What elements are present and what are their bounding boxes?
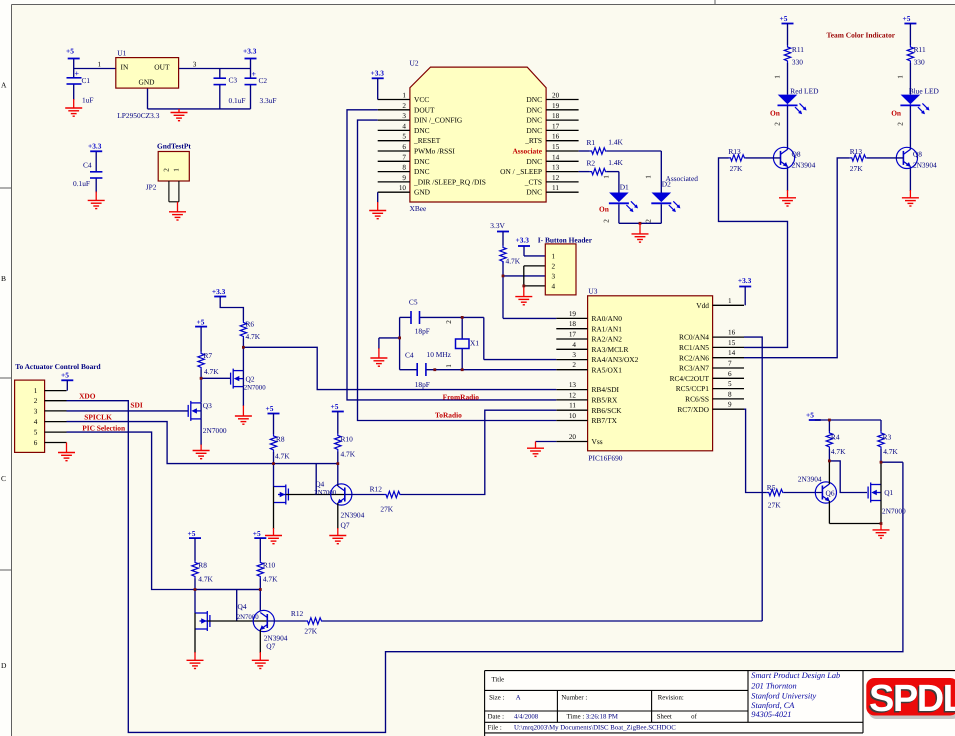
svg-text:A: A xyxy=(516,695,521,702)
svg-text:201 Thornton: 201 Thornton xyxy=(751,681,796,690)
svg-text:U1: U1 xyxy=(117,48,126,57)
svg-text:SDI: SDI xyxy=(130,401,142,410)
svg-text:of: of xyxy=(691,714,697,721)
svg-text:4: 4 xyxy=(402,122,406,130)
svg-text:Time :: Time : xyxy=(567,714,585,721)
svg-text:DNC: DNC xyxy=(526,95,542,104)
svg-text:27K: 27K xyxy=(730,164,743,173)
svg-text:2N7000: 2N7000 xyxy=(244,384,267,391)
svg-text:GndTestPt: GndTestPt xyxy=(157,142,191,151)
svg-text:Associate: Associate xyxy=(512,147,542,156)
svg-text:Q1: Q1 xyxy=(884,488,893,497)
svg-text:RA4/AN3/OX2: RA4/AN3/OX2 xyxy=(592,355,639,364)
svg-text:18: 18 xyxy=(569,320,577,328)
svg-text:On: On xyxy=(770,108,780,117)
svg-text:RA0/AN0: RA0/AN0 xyxy=(592,314,623,323)
svg-text:C1: C1 xyxy=(82,76,91,85)
svg-text:DNC: DNC xyxy=(526,116,542,125)
svg-text:4.7K: 4.7K xyxy=(831,447,846,456)
svg-text:2: 2 xyxy=(572,361,576,369)
svg-text:94305-4021: 94305-4021 xyxy=(751,710,791,719)
svg-text:GND: GND xyxy=(138,78,155,87)
svg-text:Associated: Associated xyxy=(666,174,699,183)
svg-text:11: 11 xyxy=(552,184,559,192)
svg-text:2N7000: 2N7000 xyxy=(237,614,260,621)
svg-text:PIC Selection: PIC Selection xyxy=(82,423,125,432)
svg-text:18pF: 18pF xyxy=(415,380,430,389)
svg-text:2: 2 xyxy=(645,219,653,223)
svg-text:6: 6 xyxy=(402,143,406,151)
svg-text:R10: R10 xyxy=(263,561,276,570)
svg-text:27K: 27K xyxy=(768,501,781,510)
svg-text:Q4: Q4 xyxy=(315,479,324,488)
svg-text:2N7000: 2N7000 xyxy=(882,507,906,516)
svg-text:RA5/OX1: RA5/OX1 xyxy=(592,365,623,374)
svg-text:RB7/TX: RB7/TX xyxy=(592,416,618,425)
svg-text:8: 8 xyxy=(728,390,732,398)
svg-text:2N3904: 2N3904 xyxy=(913,160,937,169)
svg-text:GND: GND xyxy=(414,188,431,197)
svg-text:1: 1 xyxy=(897,75,905,79)
svg-text:+5: +5 xyxy=(903,14,911,23)
svg-text:0.1uF: 0.1uF xyxy=(229,96,246,105)
svg-text:To Actuator Control Board: To Actuator Control Board xyxy=(15,362,101,371)
svg-text:10: 10 xyxy=(569,412,577,420)
svg-text:R1: R1 xyxy=(587,138,596,147)
svg-text:R13: R13 xyxy=(850,147,863,156)
svg-text:R3: R3 xyxy=(883,432,892,441)
svg-text:1: 1 xyxy=(774,75,782,79)
svg-text:10 MHz: 10 MHz xyxy=(427,350,452,359)
svg-text:RA3/MCLR: RA3/MCLR xyxy=(592,345,629,354)
svg-text:+5: +5 xyxy=(253,529,261,538)
svg-text:+3.3: +3.3 xyxy=(243,46,257,55)
svg-text:Q8: Q8 xyxy=(913,149,922,158)
svg-text:_RTS: _RTS xyxy=(524,136,542,145)
svg-text:I- Button Header: I- Button Header xyxy=(538,235,593,244)
svg-text:_DIR /SLEEP_RQ /DIS: _DIR /SLEEP_RQ /DIS xyxy=(413,177,486,186)
svg-text:RC4/C2OUT: RC4/C2OUT xyxy=(670,374,710,383)
svg-text:VCC: VCC xyxy=(414,95,429,104)
svg-text:15: 15 xyxy=(552,143,560,151)
svg-text:4.7K: 4.7K xyxy=(198,575,213,584)
svg-text:R6: R6 xyxy=(246,319,255,328)
svg-text:19: 19 xyxy=(569,310,577,318)
svg-text:Vss: Vss xyxy=(592,437,603,446)
svg-text:C2: C2 xyxy=(259,76,268,85)
svg-text:1: 1 xyxy=(445,364,453,368)
svg-text:PWMo /RSSI: PWMo /RSSI xyxy=(414,147,455,156)
svg-text:XBee: XBee xyxy=(410,204,428,213)
svg-text:2: 2 xyxy=(402,102,406,110)
svg-text:DNC: DNC xyxy=(526,157,542,166)
svg-text:12: 12 xyxy=(552,174,560,182)
svg-text:10: 10 xyxy=(399,184,407,192)
svg-text:17: 17 xyxy=(552,122,560,130)
svg-text:2: 2 xyxy=(552,263,556,271)
svg-text:C: C xyxy=(1,474,6,483)
svg-text:+3.3: +3.3 xyxy=(88,142,102,151)
svg-text:R12: R12 xyxy=(291,609,304,618)
svg-text:1: 1 xyxy=(552,253,556,261)
svg-text:Q8: Q8 xyxy=(792,149,801,158)
svg-text:RC1/AN5: RC1/AN5 xyxy=(679,343,709,352)
svg-text:RB4/SDI: RB4/SDI xyxy=(592,385,620,394)
svg-text:19: 19 xyxy=(552,102,560,110)
svg-text:+3.3: +3.3 xyxy=(371,68,385,77)
svg-text:17: 17 xyxy=(569,331,577,339)
svg-text:File :: File : xyxy=(488,725,502,732)
svg-text:+3.3: +3.3 xyxy=(516,235,530,244)
svg-text:330: 330 xyxy=(914,57,925,66)
svg-text:ToRadio: ToRadio xyxy=(435,410,462,419)
svg-text:Stanford University: Stanford University xyxy=(751,691,816,700)
svg-text:2N3904: 2N3904 xyxy=(798,475,822,484)
svg-text:2N3904: 2N3904 xyxy=(792,160,816,169)
svg-text:4/4/2008: 4/4/2008 xyxy=(514,714,539,721)
svg-text:330: 330 xyxy=(792,57,803,66)
svg-text:14: 14 xyxy=(552,153,560,161)
svg-text:RA1/AN1: RA1/AN1 xyxy=(592,324,623,333)
svg-text:1.4K: 1.4K xyxy=(608,158,623,167)
svg-text:27K: 27K xyxy=(850,164,863,173)
svg-text:R8: R8 xyxy=(198,561,207,570)
svg-text:+5: +5 xyxy=(331,402,339,411)
svg-text:4: 4 xyxy=(34,418,38,426)
svg-text:RC7/XDO: RC7/XDO xyxy=(677,405,709,414)
svg-text:DNC: DNC xyxy=(526,105,542,114)
svg-text:IN: IN xyxy=(121,62,129,71)
svg-text:3:26:18 PM: 3:26:18 PM xyxy=(586,714,618,721)
svg-text:27K: 27K xyxy=(304,627,317,636)
svg-text:Size :: Size : xyxy=(489,694,504,701)
svg-text:On: On xyxy=(891,108,901,117)
svg-text:+5: +5 xyxy=(266,404,274,413)
svg-text:X1: X1 xyxy=(470,339,479,348)
svg-text:Q2: Q2 xyxy=(246,374,255,383)
svg-text:_RESET: _RESET xyxy=(413,136,441,145)
svg-text:3: 3 xyxy=(402,112,406,120)
svg-text:13: 13 xyxy=(569,381,577,389)
svg-text:Date :: Date : xyxy=(488,714,505,721)
svg-text:1uF: 1uF xyxy=(82,96,94,105)
svg-text:OUT: OUT xyxy=(154,62,170,71)
svg-text:12: 12 xyxy=(569,391,577,399)
svg-text:5: 5 xyxy=(728,380,732,388)
svg-text:LP2950CZ3.3: LP2950CZ3.3 xyxy=(117,111,159,120)
svg-text:0.1uF: 0.1uF xyxy=(73,179,90,188)
svg-text:+5: +5 xyxy=(61,370,69,379)
svg-text:_CTS: _CTS xyxy=(524,177,542,186)
svg-text:Q6: Q6 xyxy=(826,489,835,498)
svg-text:R4: R4 xyxy=(831,432,840,441)
svg-text:PIC16F690: PIC16F690 xyxy=(588,453,622,462)
svg-text:8: 8 xyxy=(402,164,406,172)
svg-text:1: 1 xyxy=(728,297,732,305)
svg-text:JP2: JP2 xyxy=(146,182,157,191)
svg-text:DNC: DNC xyxy=(414,126,430,135)
svg-text:Vdd: Vdd xyxy=(696,301,709,310)
svg-text:+3.3: +3.3 xyxy=(212,287,226,296)
svg-text:Team Color Indicator: Team Color Indicator xyxy=(827,31,896,40)
svg-text:R11: R11 xyxy=(792,45,804,54)
svg-text:4.7K: 4.7K xyxy=(263,575,278,584)
svg-text:Number :: Number : xyxy=(561,694,587,701)
svg-text:18: 18 xyxy=(552,112,560,120)
svg-text:B: B xyxy=(1,274,6,283)
svg-text:7: 7 xyxy=(402,153,406,161)
svg-text:RA2/AN2: RA2/AN2 xyxy=(592,335,623,344)
svg-text:3: 3 xyxy=(193,60,197,68)
svg-text:DNC: DNC xyxy=(414,157,430,166)
svg-text:4: 4 xyxy=(552,283,556,291)
svg-text:DNC: DNC xyxy=(526,126,542,135)
svg-text:1: 1 xyxy=(645,175,653,179)
svg-text:RC5/CCP1: RC5/CCP1 xyxy=(676,384,710,393)
svg-text:DOUT: DOUT xyxy=(414,105,435,114)
svg-text:Red LED: Red LED xyxy=(790,86,819,95)
svg-text:2N7000: 2N7000 xyxy=(314,489,337,496)
svg-text:R2: R2 xyxy=(587,159,596,168)
svg-text:Title: Title xyxy=(492,677,505,684)
svg-text:On: On xyxy=(599,205,609,214)
svg-text:R13: R13 xyxy=(728,147,741,156)
svg-text:Q7: Q7 xyxy=(266,642,275,651)
svg-text:2: 2 xyxy=(163,168,171,172)
svg-text:1: 1 xyxy=(173,168,181,172)
svg-text:DNC: DNC xyxy=(414,167,430,176)
svg-text:1: 1 xyxy=(34,387,38,395)
svg-text:1: 1 xyxy=(602,175,610,179)
svg-text:RC3/AN7: RC3/AN7 xyxy=(679,364,709,373)
svg-text:4.7K: 4.7K xyxy=(204,367,219,376)
svg-text:13: 13 xyxy=(552,164,560,172)
svg-text:4.7K: 4.7K xyxy=(275,451,290,460)
svg-text:9: 9 xyxy=(728,401,732,409)
svg-text:1.4K: 1.4K xyxy=(608,138,623,147)
svg-text:2: 2 xyxy=(774,122,782,126)
svg-text:9: 9 xyxy=(402,174,406,182)
svg-text:20: 20 xyxy=(552,92,560,100)
svg-text:+5: +5 xyxy=(780,14,788,23)
svg-text:11: 11 xyxy=(569,402,576,410)
svg-text:R12: R12 xyxy=(370,484,383,493)
svg-text:5: 5 xyxy=(34,429,38,437)
svg-text:4.7K: 4.7K xyxy=(506,257,521,266)
svg-text:+5: +5 xyxy=(197,318,205,327)
svg-text:3: 3 xyxy=(34,407,38,415)
svg-text:DNC: DNC xyxy=(526,188,542,197)
svg-text:3: 3 xyxy=(552,273,556,281)
svg-text:RC0/AN4: RC0/AN4 xyxy=(679,333,709,342)
svg-text:R11: R11 xyxy=(914,45,926,54)
svg-text:18pF: 18pF xyxy=(415,326,430,335)
svg-text:D1: D1 xyxy=(620,183,629,192)
svg-text:2: 2 xyxy=(445,320,453,324)
svg-text:2: 2 xyxy=(602,219,610,223)
svg-text:6: 6 xyxy=(34,439,38,447)
svg-text:R10: R10 xyxy=(341,434,354,443)
svg-text:Revision:: Revision: xyxy=(658,694,684,701)
svg-text:C3: C3 xyxy=(229,76,238,85)
svg-text:R8: R8 xyxy=(276,434,285,443)
svg-text:Sheet: Sheet xyxy=(657,714,672,721)
svg-text:C4: C4 xyxy=(405,350,414,359)
svg-text:3.3uF: 3.3uF xyxy=(260,96,277,105)
svg-text:+3.3: +3.3 xyxy=(738,276,752,285)
svg-text:+: + xyxy=(75,69,80,78)
svg-text:27K: 27K xyxy=(380,504,393,513)
svg-text:16: 16 xyxy=(552,133,560,141)
svg-text:+5: +5 xyxy=(188,529,196,538)
svg-text:RB5/RX: RB5/RX xyxy=(592,396,619,405)
svg-text:+: + xyxy=(252,69,257,78)
svg-text:XDO: XDO xyxy=(79,391,96,400)
svg-text:RC6/SS: RC6/SS xyxy=(685,395,709,404)
svg-text:DIN /_CONFIG: DIN /_CONFIG xyxy=(414,116,463,125)
svg-text:D: D xyxy=(1,661,7,670)
svg-text:2: 2 xyxy=(34,397,38,405)
svg-text:3: 3 xyxy=(572,351,576,359)
svg-text:ON / _SLEEP: ON / _SLEEP xyxy=(500,167,542,176)
svg-text:U2: U2 xyxy=(410,58,419,67)
svg-text:A: A xyxy=(1,81,7,90)
svg-text:1: 1 xyxy=(98,60,102,68)
svg-text:1: 1 xyxy=(402,92,406,100)
svg-text:3.3V: 3.3V xyxy=(490,221,505,230)
svg-text:2N3904: 2N3904 xyxy=(341,510,365,519)
svg-text:+5: +5 xyxy=(66,46,74,55)
svg-text:2N7000: 2N7000 xyxy=(203,426,227,435)
svg-text:Stanford, CA: Stanford, CA xyxy=(751,701,795,710)
svg-text:C5: C5 xyxy=(409,297,418,306)
svg-text:RC2/AN6: RC2/AN6 xyxy=(679,353,709,362)
svg-text:FromRadio: FromRadio xyxy=(443,392,480,401)
svg-text:Smart Product Design Lab: Smart Product Design Lab xyxy=(751,671,840,680)
svg-text:R5: R5 xyxy=(767,483,776,492)
svg-text:SPDL: SPDL xyxy=(869,678,955,720)
svg-text:4.7K: 4.7K xyxy=(341,449,356,458)
svg-text:RB6/SCK: RB6/SCK xyxy=(592,406,623,415)
svg-text:6: 6 xyxy=(728,370,732,378)
svg-text:4.7K: 4.7K xyxy=(883,447,898,456)
svg-text:16: 16 xyxy=(728,329,736,337)
svg-text:5: 5 xyxy=(402,133,406,141)
svg-text:U:\mrq2003\My Documents\DISC B: U:\mrq2003\My Documents\DISC Boat_ZigBee… xyxy=(514,725,676,732)
svg-text:7: 7 xyxy=(728,360,732,368)
svg-text:SPICLK: SPICLK xyxy=(84,412,112,421)
svg-text:R7: R7 xyxy=(204,351,213,360)
svg-text:15: 15 xyxy=(728,339,736,347)
svg-text:14: 14 xyxy=(728,349,736,357)
svg-text:4: 4 xyxy=(572,341,576,349)
svg-text:Q4: Q4 xyxy=(238,602,247,611)
svg-text:20: 20 xyxy=(569,433,577,441)
svg-text:Q7: Q7 xyxy=(341,520,350,529)
svg-text:Q3: Q3 xyxy=(203,401,212,410)
svg-text:+5: +5 xyxy=(806,410,814,419)
svg-text:Blue LED: Blue LED xyxy=(909,86,940,95)
svg-text:U3: U3 xyxy=(588,286,597,295)
svg-text:4.7K: 4.7K xyxy=(246,332,261,341)
svg-text:2: 2 xyxy=(897,122,905,126)
svg-text:C4: C4 xyxy=(83,161,92,170)
